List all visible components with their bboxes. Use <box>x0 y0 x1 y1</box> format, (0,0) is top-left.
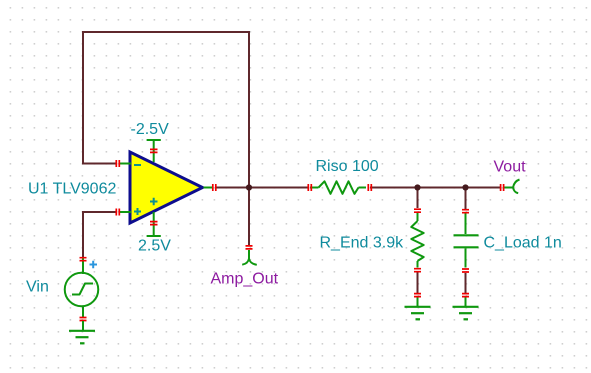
junction output node <box>246 184 252 190</box>
op-amp U1 non-inverting input pin stub <box>120 211 131 213</box>
resistor R_End bottom pin ticks <box>414 269 421 272</box>
node Vout pin symbol <box>504 180 520 194</box>
capacitor C_Load top pin ticks <box>462 210 469 213</box>
resistor Riso left pin ticks <box>308 184 311 191</box>
svg-text:Amp_Out: Amp_Out <box>211 271 279 288</box>
junction C_Load node <box>462 184 468 190</box>
svg-text:U1 TLV9062: U1 TLV9062 <box>28 181 116 198</box>
node Amp_Out pin symbol <box>242 250 257 265</box>
ground below Vin <box>69 321 95 343</box>
svg-text:Vin: Vin <box>26 279 49 296</box>
node Amp_Out pin ticks <box>246 246 253 249</box>
voltage source Vin plus polarity mark <box>90 261 98 269</box>
voltage source Vin bottom pin ticks <box>80 318 87 321</box>
op-amp U1 output pin stub <box>204 187 214 189</box>
wire C_Load top segment <box>465 188 467 211</box>
svg-text:R_End 3.9k: R_End 3.9k <box>320 235 405 252</box>
voltage source Vin top pin ticks <box>80 258 87 261</box>
wire feedback top segment <box>83 31 249 33</box>
node Vout pin ticks <box>501 184 504 191</box>
ground below R_End <box>405 297 431 319</box>
wire feedback right vertical segment <box>248 31 250 187</box>
ground C_Load pin ticks <box>462 294 469 297</box>
op-amp U1 inverting input pin stub <box>120 163 131 165</box>
wire op-amp output segment <box>216 187 308 189</box>
svg-text:Riso 100: Riso 100 <box>316 158 379 175</box>
wire C_Load bottom segment <box>465 273 467 293</box>
op-amp U1 positive supply pin stub <box>147 212 161 236</box>
wire Amp_Out drop segment <box>248 188 250 246</box>
op-amp U1 non-inverting input pin ticks <box>116 209 119 216</box>
ground below C_Load <box>453 297 479 319</box>
wire non-inverting input horizontal segment <box>82 211 116 213</box>
wire feedback left vertical segment <box>82 31 84 164</box>
svg-text:C_Load 1n: C_Load 1n <box>484 235 562 252</box>
op-amp U1 output pin ticks <box>213 184 216 191</box>
resistor Riso right pin ticks <box>368 184 371 191</box>
wire Vin vertical segment <box>82 211 84 257</box>
wire R_End top segment <box>417 188 419 209</box>
svg-text:-2.5V: -2.5V <box>131 121 170 138</box>
resistor R_End top pin ticks <box>414 209 421 212</box>
wire R_End bottom segment <box>417 273 419 294</box>
resistor R_End <box>411 213 423 268</box>
wire Riso to Vout segment <box>370 187 500 189</box>
svg-text:Vout: Vout <box>494 159 527 176</box>
svg-text:2.5V: 2.5V <box>138 238 171 255</box>
voltage source Vin <box>65 258 99 318</box>
junction R_End node <box>414 184 420 190</box>
op-amp U1 <box>130 152 203 223</box>
op-amp U1 inverting input pin ticks <box>116 160 119 167</box>
op-amp U1 negative supply pin stub <box>147 140 161 162</box>
op-amp U1 negative supply pin ticks <box>150 149 158 152</box>
wire inverting input horizontal segment <box>82 163 116 165</box>
ground R_End pin ticks <box>414 294 421 297</box>
op-amp U1 positive supply pin ticks <box>150 222 158 225</box>
capacitor C_Load <box>454 214 479 268</box>
capacitor C_Load bottom pin ticks <box>462 269 469 272</box>
resistor Riso <box>310 181 366 194</box>
